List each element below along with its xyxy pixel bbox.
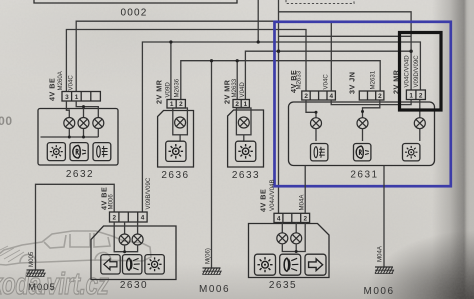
icon fog lamp xyxy=(311,144,328,161)
wire V04D bus xyxy=(279,12,412,90)
svg-text:1: 1 xyxy=(409,93,413,100)
bulb L2 xyxy=(132,234,143,245)
svg-text:2631: 2631 xyxy=(350,170,378,181)
ground symbol xyxy=(203,268,222,275)
node xyxy=(315,111,318,114)
icon position light xyxy=(166,141,186,161)
svg-text:M04A: M04A xyxy=(299,194,306,211)
svg-text:2: 2 xyxy=(179,101,183,108)
connector 2631 4V BE xyxy=(302,91,336,100)
lamp cluster 2631 xyxy=(289,55,435,181)
svg-text:2: 2 xyxy=(304,216,308,223)
icon dipped beam xyxy=(123,255,142,274)
svg-text:2: 2 xyxy=(304,93,308,100)
wire from 0002 xyxy=(257,0,259,42)
bulb L3 xyxy=(93,118,104,129)
svg-text:2: 2 xyxy=(378,93,382,100)
svg-text:V04A/V04B: V04A/V04B xyxy=(269,179,276,211)
svg-text:M2633: M2633 xyxy=(296,70,303,89)
node xyxy=(295,250,298,253)
icon position light xyxy=(236,141,256,161)
body 2633 xyxy=(228,110,264,167)
body 2636 xyxy=(158,111,194,168)
node xyxy=(68,136,71,139)
svg-text:4V BE: 4V BE xyxy=(259,189,268,212)
lamp cluster 2630 xyxy=(27,177,177,293)
junction node dots xyxy=(169,40,413,62)
ground M005 xyxy=(27,270,46,277)
node xyxy=(361,110,364,113)
icon position light xyxy=(403,144,420,161)
module 0002 box xyxy=(34,0,237,3)
bulb L1 xyxy=(311,118,322,129)
connector 2635 xyxy=(274,213,310,222)
ground symbol xyxy=(375,267,394,274)
lamp 2636 xyxy=(155,78,194,181)
connector 2632 xyxy=(62,92,100,102)
bulb L2 xyxy=(291,233,302,244)
wire 3VJN pin2 to lamp2 xyxy=(363,100,380,118)
wire pin4 to pin1 link xyxy=(331,100,411,105)
ground M006 right xyxy=(363,166,394,298)
wire V04C bus xyxy=(76,21,331,91)
svg-text:1: 1 xyxy=(170,101,174,108)
wire M2633 drop to 2633 xyxy=(236,61,238,100)
svg-text:3V JN: 3V JN xyxy=(348,72,357,94)
lamp holder 2633 xyxy=(236,108,251,135)
dashed connector box (partial, top) xyxy=(286,0,354,4)
svg-text:2633: 2633 xyxy=(232,170,260,181)
connector 2631 2V MR xyxy=(406,90,425,100)
svg-text:0002: 0002 xyxy=(120,8,147,19)
wire lamp stubs xyxy=(316,129,420,141)
icon fog lamp xyxy=(93,143,111,161)
svg-text:2635: 2635 xyxy=(269,280,297,291)
svg-text:2: 2 xyxy=(235,101,239,108)
icon turn signal xyxy=(305,254,326,275)
body 2632 xyxy=(38,109,118,166)
lamp cluster 2635 xyxy=(249,166,330,292)
wire 2VMR pin2 to lamp3 xyxy=(419,100,421,118)
svg-text:2630: 2630 xyxy=(120,280,148,291)
icon position light xyxy=(47,143,65,161)
wire lamp rail xyxy=(282,223,305,252)
bulb L1 xyxy=(64,118,75,129)
connector 2630 xyxy=(110,212,148,222)
svg-text:V04C/V04D: V04C/V04D xyxy=(403,55,410,88)
svg-text:M2636: M2636 xyxy=(174,78,181,97)
wire pin1 to lamps xyxy=(76,101,98,117)
svg-text:4V BE: 4V BE xyxy=(48,78,57,101)
connector 2631 3V JN xyxy=(359,91,384,100)
node xyxy=(82,105,85,108)
svg-text:M005: M005 xyxy=(28,251,35,267)
icon low beam xyxy=(70,143,88,161)
svg-text:M006: M006 xyxy=(363,286,394,297)
svg-text:V09B/V09C: V09B/V09C xyxy=(145,177,152,209)
wire M260A bus xyxy=(66,30,306,92)
lamp holder 2636 xyxy=(173,108,188,135)
bulb xyxy=(238,117,249,128)
icon position light xyxy=(145,255,164,274)
highlight black box xyxy=(400,33,442,111)
wire V04 upper link xyxy=(279,35,412,37)
lamp 2633 xyxy=(223,78,264,181)
highlight blue box xyxy=(275,22,451,186)
wire lamp rail xyxy=(114,222,137,252)
connector 2636 xyxy=(167,100,185,109)
svg-text:M2631: M2631 xyxy=(370,70,377,89)
svg-text:M006: M006 xyxy=(199,284,230,295)
bulb L2 xyxy=(357,118,368,129)
wire lamp stems up xyxy=(125,222,138,234)
node xyxy=(82,136,85,139)
svg-text:2: 2 xyxy=(113,215,117,222)
svg-text:3: 3 xyxy=(65,94,69,101)
svg-text:2636: 2636 xyxy=(161,170,189,181)
svg-text:V09D/V09C: V09D/V09C xyxy=(413,55,420,88)
connector 2633 xyxy=(233,100,249,108)
svg-text:4: 4 xyxy=(277,216,281,223)
svg-text:2: 2 xyxy=(419,93,423,100)
svg-text:2V MR: 2V MR xyxy=(155,79,164,104)
icon position light xyxy=(255,254,276,275)
wire V09D drop to 2636 xyxy=(170,42,172,100)
svg-text:M2633: M2633 xyxy=(231,78,238,97)
wire lamp down xyxy=(243,135,245,141)
svg-text:000: 000 xyxy=(0,114,13,128)
wire V04A feed to 2635 xyxy=(278,0,280,213)
svg-text:M005: M005 xyxy=(28,282,56,293)
svg-text:V04C: V04C xyxy=(323,74,330,90)
svg-text:1: 1 xyxy=(75,94,79,101)
wire lamp stems up xyxy=(282,223,296,234)
wire M04A to ground xyxy=(383,166,385,268)
svg-text:4: 4 xyxy=(330,93,334,100)
svg-text:V04D: V04D xyxy=(239,82,246,98)
wire pin2 to lamp1 xyxy=(306,100,316,118)
svg-text:V09D: V09D xyxy=(164,82,171,98)
bulb L2 xyxy=(78,118,89,129)
svg-text:M006: M006 xyxy=(108,194,115,210)
node xyxy=(123,250,126,253)
wire pin3 to lamp xyxy=(66,101,69,117)
wire V04D link xyxy=(245,51,411,99)
WATERMARK-LAYER xyxy=(0,231,151,299)
body 2635 xyxy=(249,224,330,278)
svg-text:M(06): M(06) xyxy=(205,248,212,264)
wire pin2 to left ground xyxy=(36,184,115,270)
icon dipped beam xyxy=(280,254,301,275)
wire lamp down xyxy=(179,135,181,141)
svg-text:V04C: V04C xyxy=(68,75,75,91)
bulb L3 xyxy=(414,118,425,129)
wire lamp rail xyxy=(41,129,99,137)
bulb xyxy=(175,117,186,128)
body 2631 xyxy=(289,102,435,166)
bulb L1 xyxy=(277,233,288,244)
ground M006 center xyxy=(199,248,230,295)
svg-text:2632: 2632 xyxy=(66,169,94,180)
bulb L1 xyxy=(119,234,130,245)
lamp cluster 2632 xyxy=(38,70,118,180)
svg-text:4: 4 xyxy=(141,215,145,222)
wire V09 bus xyxy=(142,42,420,212)
icon low beam xyxy=(354,144,371,161)
wire M006 to ground xyxy=(211,61,213,268)
svg-text:M04A: M04A xyxy=(377,245,384,262)
body 2630 xyxy=(91,226,176,280)
wire M-net bus xyxy=(181,61,380,100)
svg-text:M260A: M260A xyxy=(57,70,64,90)
wire M04A from 2631 xyxy=(304,166,306,214)
icon turn signal xyxy=(101,255,120,274)
svg-text:1: 1 xyxy=(244,101,248,108)
